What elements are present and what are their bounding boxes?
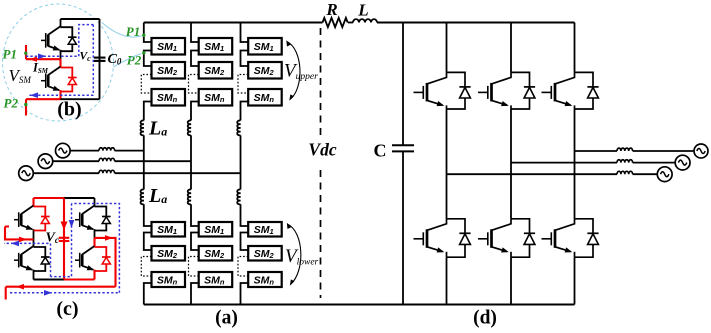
wire (c) output bottom xyxy=(6,284,116,300)
label P1 at SM1 xyxy=(126,24,140,39)
arm inductor La lower leg1 xyxy=(140,189,143,204)
label C xyxy=(374,141,387,161)
arc Vupper xyxy=(286,40,300,100)
SM box SM2 lower arm leg1 xyxy=(152,246,186,261)
svg-text:(d): (d) xyxy=(473,308,497,329)
label R xyxy=(325,0,337,19)
wire VSC leg3 emitter drop xyxy=(574,257,576,304)
diode (c) upper-right xyxy=(95,207,111,231)
wire upper arm entry leg1 xyxy=(144,23,152,43)
wire dotted SM2-SMn lower leg1 xyxy=(141,257,151,277)
transistor upper IGBT leg2 (d) xyxy=(478,72,511,109)
wire (c) input terminal xyxy=(5,227,34,243)
arm inductor La lower leg2 xyxy=(188,189,191,204)
wire upper arm entry leg2 xyxy=(191,23,199,43)
diode lower leg1 (d) xyxy=(447,219,471,257)
transistor (b) lower IGBT xyxy=(41,59,61,99)
transistor (c) upper-right IGBT xyxy=(75,198,95,238)
SM box SM2 upper arm leg2 xyxy=(199,62,233,79)
label vc xyxy=(80,51,92,64)
svg-text:P1: P1 xyxy=(3,47,17,62)
wire lower inductor to SM1 leg3 xyxy=(241,204,249,226)
wire (c) top rail black xyxy=(64,197,95,199)
wire (b) bottom rail red part xyxy=(26,98,61,100)
inductor AC filter left 3 xyxy=(99,170,115,173)
AC source left 1 xyxy=(56,143,71,158)
transistor upper IGBT leg3 (d) xyxy=(542,72,575,109)
wire dotted SM2-SMn lower leg3 xyxy=(238,257,248,277)
inductor AC filter right 2 xyxy=(617,160,633,163)
SM box SMn lower arm leg1 xyxy=(152,272,186,287)
SM box SMn upper arm leg3 xyxy=(248,89,282,106)
svg-text:C: C xyxy=(374,141,387,161)
wire SMn to arm inductor upper leg1 xyxy=(144,102,152,121)
transistor (c) lower-right IGBT xyxy=(75,238,95,280)
label Vdc xyxy=(308,140,336,160)
wire top DC bus right section xyxy=(377,22,575,24)
label (b) P1 xyxy=(3,47,17,62)
wire (c) top rail red xyxy=(34,197,65,199)
wire SMn to bottom bus leg2 xyxy=(191,283,199,305)
wire VSC leg1 emitter drop xyxy=(446,257,448,304)
current path (b) blue dashed xyxy=(26,25,93,98)
SM box SM1 lower arm leg2 xyxy=(199,222,233,237)
svg-text:L: L xyxy=(357,1,368,20)
wire (c) bottom rail red xyxy=(64,278,95,280)
wire (b) bottom rail black part xyxy=(61,98,100,100)
wire upper arm entry leg3 xyxy=(241,23,249,43)
wire SM1-SM2 link upper leg3 xyxy=(241,51,249,67)
wire SM1-SM2 link lower leg2 xyxy=(191,233,199,251)
node P1 dot at SM1 xyxy=(142,34,145,37)
inductor L xyxy=(353,19,377,22)
label (a) xyxy=(215,308,238,329)
wire lower inductor to SM1 leg1 xyxy=(144,204,152,226)
SM box SMn upper arm leg2 xyxy=(199,89,233,106)
AC source left 2 xyxy=(38,154,53,169)
SM box SMn lower arm leg2 xyxy=(199,272,233,287)
SM box SM1 lower arm leg3 xyxy=(248,222,282,237)
AC source right 1 xyxy=(694,144,708,158)
wire VSC leg3 midsection xyxy=(574,109,576,219)
zoom leader line to P1 xyxy=(102,23,142,38)
wire SMn to arm inductor upper leg3 xyxy=(241,102,249,121)
wire AC phase line left 2 xyxy=(53,160,191,162)
transistor (c) upper-left IGBT xyxy=(14,198,34,239)
capacitor Vc (c) xyxy=(59,238,70,241)
wire SM1-SM2 link lower leg1 xyxy=(144,233,152,251)
inductor AC filter right 3 xyxy=(617,171,633,174)
wire VSC leg2 emitter drop xyxy=(510,257,512,304)
inductor AC filter left 1 xyxy=(99,148,115,151)
wire dotted SM2-SMn upper leg2 xyxy=(189,75,199,94)
wire AC phase line right 1 xyxy=(575,150,695,152)
SM box SMn upper arm leg1 xyxy=(152,89,186,106)
AC source right 3 xyxy=(657,167,672,182)
wire dotted SM2-SMn upper leg1 xyxy=(141,75,151,94)
svg-text:(c): (c) xyxy=(56,298,78,320)
svg-text:P2: P2 xyxy=(4,96,19,111)
label P2 at SM1 xyxy=(127,52,142,67)
transistor lower IGBT leg1 (d) xyxy=(414,219,447,257)
capacitor C0 (b) xyxy=(94,58,106,61)
wire upper arm to AC node leg3 xyxy=(240,135,242,189)
arm inductor La upper leg2 xyxy=(188,120,191,135)
wire upper arm to AC node leg1 xyxy=(143,135,145,189)
wire VSC leg2 midsection xyxy=(510,109,512,219)
wire VSC leg1 midsection xyxy=(446,109,448,219)
SM box SM2 lower arm leg3 xyxy=(248,246,282,261)
transistor upper IGBT leg1 (d) xyxy=(414,72,447,109)
wire top DC bus left section xyxy=(144,22,323,24)
wire VSC leg1 collector drop xyxy=(446,23,448,73)
diode lower leg2 (d) xyxy=(511,219,535,257)
wire VSC leg2 collector drop xyxy=(510,23,512,73)
wire lower inductor to SM1 leg2 xyxy=(191,204,199,226)
SM box SM1 upper arm leg1 xyxy=(152,38,186,55)
label Vlower xyxy=(285,246,319,268)
wire SM1-SM2 link upper leg2 xyxy=(191,51,199,67)
inductor AC filter left 2 xyxy=(99,158,115,161)
wire dotted SM2-SMn upper leg3 xyxy=(238,75,248,94)
diode (c) lower-right (red) xyxy=(95,247,111,271)
wire (b) capacitor branch xyxy=(99,19,101,99)
wire SMn to bottom bus leg3 xyxy=(241,283,249,305)
label La upper xyxy=(148,118,167,140)
SM box SM1 upper arm leg3 xyxy=(248,38,282,55)
label (b) xyxy=(57,99,81,121)
label ISM xyxy=(32,61,49,76)
diode (c) lower-left xyxy=(34,247,50,271)
SM box SM1 lower arm leg1 xyxy=(152,222,186,237)
diode upper leg2 (d) xyxy=(511,72,535,109)
net Vdc dashed line lower xyxy=(320,170,322,298)
arm inductor La upper leg1 xyxy=(140,120,143,135)
transistor lower IGBT leg2 (d) xyxy=(478,219,511,257)
svg-text:Vdc: Vdc xyxy=(308,140,336,160)
wire (c) capacitor branch xyxy=(61,198,68,280)
svg-text:(b): (b) xyxy=(57,99,81,121)
wire AC phase line left 1 xyxy=(70,150,144,152)
svg-text:R: R xyxy=(325,0,337,19)
diode lower leg3 (d) xyxy=(575,219,599,257)
wire AC phase line right 3 xyxy=(447,173,658,175)
node (b) P1 dot xyxy=(24,52,27,55)
capacitor C xyxy=(392,145,414,151)
wire (b) P2 terminal xyxy=(25,99,27,115)
wire SM1-SM2 link lower leg3 xyxy=(241,233,249,251)
arm inductor La upper leg3 xyxy=(237,120,240,135)
SM box SM2 upper arm leg1 xyxy=(152,62,186,79)
wire upper arm to AC node leg2 xyxy=(190,135,192,189)
AC source right 2 xyxy=(675,155,690,170)
diode upper leg3 (d) xyxy=(575,72,599,109)
wire SMn to bottom bus leg1 xyxy=(144,283,152,305)
label Vupper xyxy=(284,61,318,83)
wire R-L link xyxy=(348,22,353,24)
wire VSC leg3 collector drop xyxy=(574,23,576,73)
label C0 xyxy=(108,52,122,67)
wire (b) top rail xyxy=(61,18,100,20)
label VSM xyxy=(9,66,32,85)
arc Vlower xyxy=(287,223,301,286)
wire (c) bottom rail black xyxy=(34,279,65,281)
wire AC phase line right 2 xyxy=(511,162,675,164)
label (b) P2 xyxy=(4,96,19,111)
diode (b) upper xyxy=(61,27,77,51)
svg-text:(a): (a) xyxy=(215,308,238,329)
SM box SMn lower arm leg3 xyxy=(248,272,282,287)
transistor lower IGBT leg3 (d) xyxy=(542,219,575,257)
wire bottom DC bus xyxy=(144,304,575,306)
diode (b) lower (red) xyxy=(61,68,77,92)
label (d) xyxy=(473,308,497,329)
zoom bubble circle (b) xyxy=(3,4,114,121)
wire capacitor branch upper xyxy=(402,23,404,146)
wire (c) output right side xyxy=(95,235,116,287)
diode upper leg1 (d) xyxy=(447,72,471,109)
wire SMn to arm inductor upper leg2 xyxy=(191,102,199,121)
label L xyxy=(357,1,368,20)
net Vdc dashed line upper xyxy=(320,28,322,135)
transistor (b) upper IGBT xyxy=(41,19,61,59)
inductor AC filter right 1 xyxy=(617,148,633,151)
label La lower xyxy=(148,185,167,207)
diode (c) upper-left (red) xyxy=(34,207,50,231)
SM box SM2 lower arm leg2 xyxy=(199,246,233,261)
arm inductor La lower leg3 xyxy=(237,189,240,204)
wire capacitor branch lower xyxy=(402,151,404,304)
wire AC phase line left 3 xyxy=(33,172,240,174)
zoom leader line to P2 xyxy=(114,54,142,68)
SM box SM1 upper arm leg2 xyxy=(199,38,233,55)
wire SM1-SM2 link upper leg1 xyxy=(144,51,152,67)
wire dotted SM2-SMn lower leg2 xyxy=(189,257,199,277)
label Vc (c) xyxy=(46,231,59,246)
transistor (c) lower-left IGBT xyxy=(14,239,34,279)
node P2 dot at SM1 xyxy=(142,51,145,54)
resistor R xyxy=(323,18,348,27)
AC source left 3 xyxy=(19,166,34,181)
wire (b) P1 terminal xyxy=(26,45,61,62)
label (c) xyxy=(56,298,78,320)
current path (c) blue dashed xyxy=(4,204,119,296)
SM box SM2 upper arm leg3 xyxy=(248,62,282,79)
node (b) P2 dot xyxy=(24,103,27,106)
